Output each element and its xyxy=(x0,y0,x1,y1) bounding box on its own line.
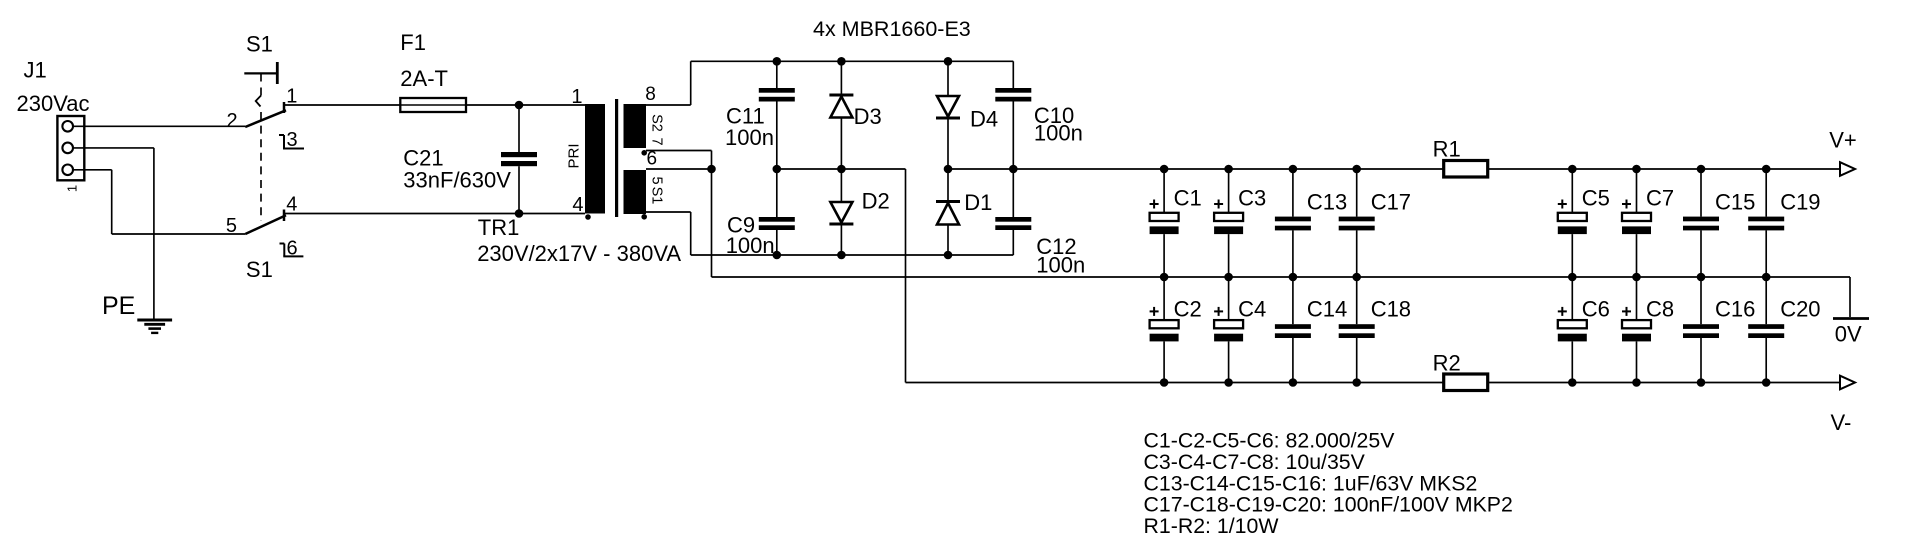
svg-text:1: 1 xyxy=(571,86,582,108)
capacitor C5 (electrolytic) xyxy=(1571,169,1573,213)
capacitor C4 (electrolytic) xyxy=(1228,277,1230,320)
wire V- net bridge segment xyxy=(777,168,906,170)
svg-text:D1: D1 xyxy=(964,190,992,215)
svg-text:R1: R1 xyxy=(1433,136,1461,161)
capacitor C12 xyxy=(1012,169,1014,217)
wire TR1 pin 5 to bridge bottom rail xyxy=(646,211,691,213)
svg-text:D3: D3 xyxy=(854,104,882,129)
junction V+ at D4/D1 xyxy=(944,165,953,174)
capacitor C8 (electrolytic) xyxy=(1636,277,1638,320)
TR1 S1 terminal dot (pin 5) xyxy=(641,214,647,220)
svg-text:C13: C13 xyxy=(1307,190,1347,215)
junction C17 on V+ rail xyxy=(1352,165,1361,174)
svg-text:2A-T: 2A-T xyxy=(400,66,448,91)
junction C5 on V+ rail xyxy=(1568,165,1577,174)
resistor R1 xyxy=(1444,161,1488,178)
svg-text:8: 8 xyxy=(645,84,656,105)
junction C1 on V+ rail xyxy=(1160,165,1169,174)
junction V- net at C11/C9 xyxy=(773,165,782,174)
junction bottom rail at D2 xyxy=(837,251,846,260)
transformer TR1 secondary S1 winding xyxy=(624,170,647,214)
svg-text:C20: C20 xyxy=(1780,297,1820,322)
svg-text:R1-R2: 1/10W: R1-R2: 1/10W xyxy=(1144,514,1280,538)
junction C19 on V+ rail xyxy=(1762,165,1771,174)
junction C16 on V- rail xyxy=(1697,378,1706,387)
junction top rail at D3 xyxy=(837,57,846,66)
wire V+ net bridge to R1 xyxy=(948,168,1444,170)
junction V+ at C10/C12 xyxy=(1009,165,1018,174)
wire J1 bottom pin to switch pole B xyxy=(73,169,112,171)
svg-text:100n: 100n xyxy=(1036,253,1085,278)
junction V- net at D3/D2 xyxy=(837,165,846,174)
svg-text:2: 2 xyxy=(227,110,238,132)
svg-text:5: 5 xyxy=(649,176,665,184)
svg-text:4: 4 xyxy=(572,194,583,216)
capacitor C17 (film) xyxy=(1356,169,1358,217)
wire R1 to V+ output xyxy=(1488,168,1841,170)
wire TR1 pin 8 to bridge top rail xyxy=(646,104,691,106)
capacitor C13 (film) xyxy=(1292,169,1294,217)
arrow V- output xyxy=(1840,376,1855,390)
svg-text:C19: C19 xyxy=(1780,190,1820,215)
svg-text:PRI: PRI xyxy=(565,143,582,168)
capacitor C18 (film) xyxy=(1356,277,1358,324)
junction C8 on V- rail xyxy=(1632,378,1641,387)
wire V- net down xyxy=(905,169,907,383)
wire switch pin1 to fuse F1 xyxy=(284,104,400,106)
wire 0V terminal drop xyxy=(1849,277,1851,317)
svg-text:J1: J1 xyxy=(24,58,47,83)
junction C15 on V+ rail xyxy=(1697,165,1706,174)
svg-text:C17: C17 xyxy=(1371,190,1411,215)
svg-text:100n: 100n xyxy=(725,125,774,150)
junction on 0V rail xyxy=(1762,273,1771,282)
junction center tap xyxy=(707,165,716,174)
junction on 0V rail xyxy=(1568,273,1577,282)
svg-text:S2: S2 xyxy=(649,114,665,132)
svg-text:3: 3 xyxy=(287,129,298,151)
junction on 0V rail xyxy=(1352,273,1361,282)
svg-text:100n: 100n xyxy=(726,233,775,258)
diode D2 xyxy=(840,169,842,202)
arrow V+ output xyxy=(1840,162,1855,176)
svg-text:V+: V+ xyxy=(1829,128,1857,153)
svg-text:230Vac: 230Vac xyxy=(17,91,90,116)
switch S1 pole A contact pin 1 xyxy=(283,102,286,113)
junction C2 on V- rail xyxy=(1160,378,1169,387)
svg-text:33nF/630V: 33nF/630V xyxy=(403,168,511,193)
capacitor C3 (electrolytic) xyxy=(1228,169,1230,213)
0V terminal bar xyxy=(1833,317,1869,320)
svg-text:6: 6 xyxy=(647,149,658,170)
diode D4 xyxy=(947,61,949,96)
switch S1 pole A throw pin 3 xyxy=(279,134,284,136)
svg-text:5: 5 xyxy=(226,215,237,237)
svg-text:C5: C5 xyxy=(1582,185,1610,210)
svg-text:C14: C14 xyxy=(1307,297,1347,322)
wire V- rail to R2 xyxy=(906,382,1444,384)
capacitor C15 (film) xyxy=(1700,169,1702,217)
svg-text:C13-C14-C15-C16: 1uF/63V MKS2: C13-C14-C15-C16: 1uF/63V MKS2 xyxy=(1144,471,1478,495)
switch S1 pole A lever (pins 2-1) xyxy=(245,110,286,127)
junction on 0V rail xyxy=(1160,273,1169,282)
svg-text:V-: V- xyxy=(1831,410,1852,435)
diode D3 xyxy=(840,61,842,95)
capacitor C19 (film) xyxy=(1765,169,1767,217)
svg-text:C4: C4 xyxy=(1238,297,1266,322)
svg-text:C6: C6 xyxy=(1582,297,1610,322)
svg-text:C17-C18-C19-C20: 100nF/100V MK: C17-C18-C19-C20: 100nF/100V MKP2 xyxy=(1144,493,1513,517)
svg-text:C15: C15 xyxy=(1715,190,1755,215)
svg-text:C3-C4-C7-C8: 10u/35V: C3-C4-C7-C8: 10u/35V xyxy=(1144,450,1366,474)
svg-text:C16: C16 xyxy=(1715,297,1755,322)
junction bottom rail at D1 xyxy=(944,251,953,260)
capacitor C6 (electrolytic) xyxy=(1571,277,1573,320)
connector J1 pin circle bottom xyxy=(62,165,73,176)
junction C21 bottom xyxy=(515,209,524,218)
svg-text:4x MBR1660-E3: 4x MBR1660-E3 xyxy=(813,17,971,41)
switch S1 actuator T-bar xyxy=(244,72,276,74)
capacitor C1 (electrolytic) xyxy=(1163,169,1165,213)
junction C6 on V- rail xyxy=(1568,378,1577,387)
wire fuse to TR1 pin 1 xyxy=(466,104,585,106)
wire J1 middle pin to PE ground xyxy=(73,147,154,149)
ground PE symbol xyxy=(137,319,172,322)
resistor R2 xyxy=(1444,374,1488,391)
svg-text:100n: 100n xyxy=(1034,121,1083,146)
junction C18 on V- rail xyxy=(1352,378,1361,387)
fuse F1 xyxy=(400,104,466,106)
junction on 0V rail xyxy=(1697,273,1706,282)
junction top rail at C11 xyxy=(773,57,782,66)
svg-text:C1-C2-C5-C6: 82.000/25V: C1-C2-C5-C6: 82.000/25V xyxy=(1144,429,1396,453)
wire TR1 pin 6 (S1 top) to center tap junction xyxy=(646,168,712,170)
junction C20 on V- rail xyxy=(1762,378,1771,387)
capacitor C2 (electrolytic) xyxy=(1163,277,1165,320)
svg-text:S1: S1 xyxy=(246,32,273,57)
svg-text:C1: C1 xyxy=(1174,185,1202,210)
wire bridge top rail (AC1) xyxy=(691,60,1014,62)
TR1 S2 terminal dot (pin 7) xyxy=(641,150,647,156)
transformer TR1 secondary S2 winding xyxy=(624,104,647,148)
junction C3 on V+ rail xyxy=(1224,165,1233,174)
svg-text:S1: S1 xyxy=(246,257,273,282)
svg-text:F1: F1 xyxy=(400,30,426,55)
svg-text:7: 7 xyxy=(649,137,665,145)
switch S1 linkage dashed line with chevron xyxy=(260,73,262,81)
svg-text:6: 6 xyxy=(287,238,298,260)
junction C13 on V+ rail xyxy=(1289,165,1298,174)
svg-text:D4: D4 xyxy=(970,106,998,131)
transformer TR1 core xyxy=(615,99,618,217)
svg-text:C3: C3 xyxy=(1238,185,1266,210)
svg-text:TR1: TR1 xyxy=(478,215,520,240)
svg-text:1: 1 xyxy=(65,185,80,192)
svg-text:C18: C18 xyxy=(1371,297,1411,322)
svg-text:R2: R2 xyxy=(1433,351,1461,376)
junction C21 top xyxy=(515,101,524,110)
capacitor C16 (film) xyxy=(1700,277,1702,324)
svg-text:0V: 0V xyxy=(1835,322,1862,347)
svg-text:PE: PE xyxy=(102,292,135,320)
junction on 0V rail xyxy=(1632,273,1641,282)
connector J1 pin circle middle xyxy=(62,143,73,154)
junction C7 on V+ rail xyxy=(1632,165,1641,174)
wire center tap down to 0V rail xyxy=(711,151,713,278)
TR1 primary terminal dot xyxy=(585,214,591,220)
junction on 0V rail xyxy=(1289,273,1298,282)
connector J1 body xyxy=(57,116,84,180)
capacitor C7 (electrolytic) xyxy=(1636,169,1638,213)
junction top rail at D4 xyxy=(944,57,953,66)
switch S1 pole B contact pin 4 xyxy=(283,210,286,222)
wire switch pin4 to TR1 pin 4 xyxy=(284,213,585,215)
wire 0V rail xyxy=(712,276,1851,278)
capacitor C10 xyxy=(1012,61,1014,88)
transformer TR1 primary winding xyxy=(585,104,605,214)
svg-text:230V/2x17V - 380VA: 230V/2x17V - 380VA xyxy=(477,241,681,266)
junction C14 on V- rail xyxy=(1289,378,1298,387)
wire TR1 pin 7 to center tap junction xyxy=(646,150,712,152)
svg-text:C8: C8 xyxy=(1646,297,1674,322)
switch S1 pole B lever (pins 5-4) xyxy=(245,215,286,234)
capacitor C9 xyxy=(776,169,778,217)
capacitor C14 (film) xyxy=(1292,277,1294,324)
svg-text:C2: C2 xyxy=(1174,297,1202,322)
capacitor C20 (film) xyxy=(1765,277,1767,324)
diode D1 xyxy=(947,169,949,202)
wire R2 to V- output xyxy=(1488,382,1841,384)
wire J1 top pin to switch pole A xyxy=(73,125,245,127)
svg-text:S1: S1 xyxy=(649,187,665,205)
connector J1 pin circle top xyxy=(62,121,73,132)
junction on 0V rail xyxy=(1224,273,1233,282)
svg-text:C7: C7 xyxy=(1646,185,1674,210)
capacitor C21 xyxy=(518,105,520,152)
capacitor C11 xyxy=(776,61,778,88)
svg-text:4: 4 xyxy=(286,194,297,216)
junction bottom rail at C9 xyxy=(773,251,782,260)
junction C4 on V- rail xyxy=(1224,378,1233,387)
switch S1 pole B throw pin 6 xyxy=(280,243,285,245)
svg-text:D2: D2 xyxy=(862,189,890,214)
